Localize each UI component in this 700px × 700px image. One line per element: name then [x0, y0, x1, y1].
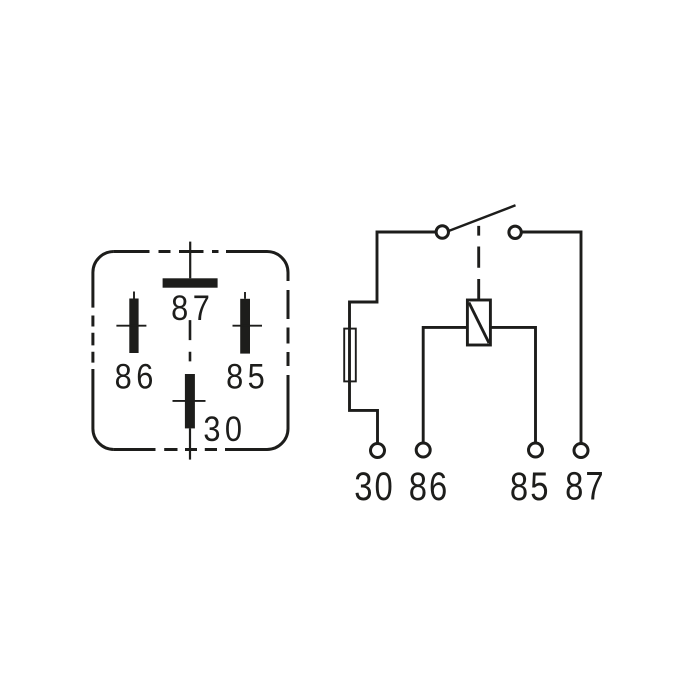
pin 30 cross line: [173, 400, 206, 402]
pin 85 cross line: [233, 325, 263, 327]
relay body outline (dashed rounded square): [93, 252, 288, 450]
svg-text:87: 87: [565, 464, 606, 509]
wire: switch common to terminal 30 via fuse: [350, 232, 441, 444]
centerline through pin 87: [189, 242, 191, 279]
wire: switch output to terminal 87: [518, 232, 581, 444]
centerline dashes between 87 and 30: [189, 320, 192, 361]
terminal circle 87: [574, 444, 588, 458]
pin 85 blade: [240, 299, 250, 354]
svg-text:87: 87: [171, 288, 214, 327]
pin 86 cross line: [116, 325, 146, 327]
actuation dashes switch to coil: [477, 226, 480, 300]
pin 86 blade: [129, 299, 138, 354]
fuse: [344, 329, 356, 382]
switch arm: [446, 205, 516, 232]
pin 86 tick: [133, 292, 135, 299]
svg-text:30: 30: [354, 464, 395, 509]
wire: coil to terminal 85: [490, 327, 535, 444]
svg-text:85: 85: [226, 356, 269, 395]
wire: terminal 86 to coil: [423, 327, 467, 444]
pin 30 blade: [185, 374, 195, 428]
centerline below pin 30: [189, 428, 191, 459]
terminal circle 85: [529, 443, 543, 457]
relay coil: [467, 300, 490, 345]
svg-text:86: 86: [115, 356, 158, 395]
terminal circle 30: [371, 444, 385, 458]
terminal circle 86: [416, 443, 430, 457]
svg-text:86: 86: [409, 464, 450, 509]
pin 85 tick: [244, 292, 246, 299]
svg-text:30: 30: [203, 409, 246, 448]
svg-text:85: 85: [510, 464, 551, 509]
switch contact circle left: [436, 226, 448, 238]
pin 87 blade: [163, 278, 218, 287]
switch contact circle right: [509, 226, 521, 238]
